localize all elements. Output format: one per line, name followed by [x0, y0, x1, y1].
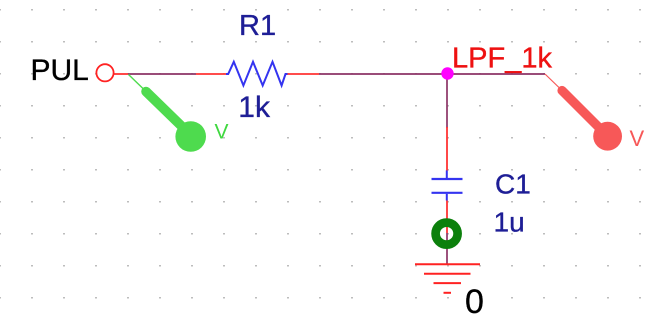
svg-text:PUL: PUL [31, 54, 89, 87]
svg-text:V: V [630, 126, 645, 151]
svg-text:V: V [215, 121, 229, 144]
svg-text:1u: 1u [494, 207, 525, 238]
svg-text:R1: R1 [239, 10, 276, 42]
svg-text:LPF_1k: LPF_1k [452, 43, 552, 75]
svg-text:C1: C1 [495, 169, 531, 200]
svg-text:1k: 1k [238, 91, 271, 124]
svg-text:0: 0 [465, 283, 484, 321]
